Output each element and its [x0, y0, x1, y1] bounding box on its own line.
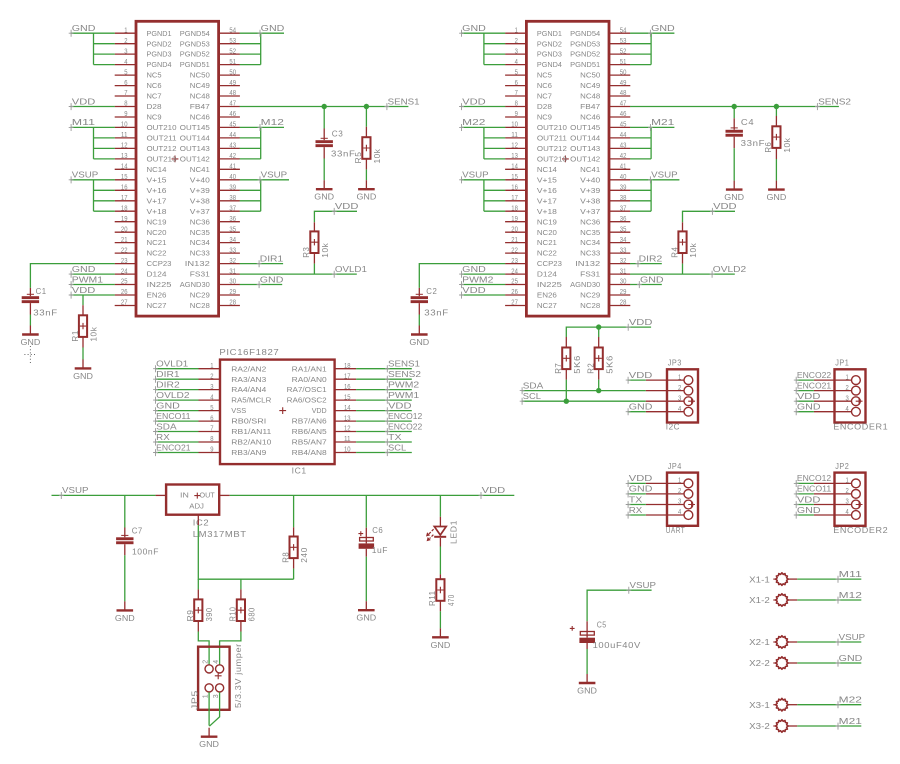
IC4 pin 12 (OUT212)	[505, 147, 526, 149]
svg-text:VSUP: VSUP	[839, 632, 866, 642]
svg-text:37: 37	[229, 205, 236, 212]
IC3 pin 42 (OUT142)	[219, 158, 240, 160]
svg-text:VDD: VDD	[72, 285, 96, 295]
svg-text:I2C: I2C	[666, 422, 680, 432]
svg-text:D124: D124	[537, 270, 557, 279]
IC3 pin 16 (V+16)	[115, 189, 136, 191]
wire R2 to SDA	[598, 380, 600, 391]
svg-text:AGND30: AGND30	[570, 280, 600, 289]
svg-text:PGND51: PGND51	[180, 60, 210, 69]
svg-text:M22: M22	[839, 695, 863, 705]
resistor R8	[293, 527, 295, 536]
ground R6	[775, 181, 777, 190]
svg-text:CCP23: CCP23	[537, 259, 562, 268]
IC4 pin 5 (NC5)	[505, 74, 526, 76]
IC3 pin 54 (PGND54)	[219, 32, 240, 34]
svg-text:27: 27	[511, 300, 518, 307]
IC4 pin 41 (NC41)	[609, 168, 630, 170]
svg-text:NC9: NC9	[537, 113, 552, 122]
svg-text:RB0/SRI: RB0/SRI	[231, 417, 266, 426]
svg-text:NC14: NC14	[537, 165, 557, 174]
regulator IC2 LM317MBT body	[166, 485, 219, 515]
IC3 pin 24 (D124)	[115, 273, 136, 275]
svg-text:OUT144: OUT144	[570, 134, 600, 143]
svg-text:NC6: NC6	[537, 81, 552, 90]
svg-text:VDD: VDD	[713, 201, 737, 211]
svg-text:OVLD2: OVLD2	[156, 390, 190, 400]
wire R9 to JP5 pin2	[198, 632, 209, 665]
svg-text:7: 7	[124, 90, 127, 97]
svg-text:5: 5	[210, 405, 213, 412]
svg-text:V+18: V+18	[537, 207, 557, 216]
wire GND to pin24 (right IC)	[461, 273, 505, 275]
svg-text:NC9: NC9	[147, 113, 162, 122]
svg-text:PGND54: PGND54	[180, 29, 210, 38]
IC3 pin 27 (NC27)	[115, 305, 136, 307]
svg-text:470: 470	[446, 594, 456, 606]
wire VDD rail from IC2 OUT	[230, 494, 515, 496]
svg-text:13: 13	[511, 153, 518, 160]
svg-text:NC5: NC5	[537, 71, 552, 80]
IC4 pin 32 (IN132)	[609, 263, 630, 265]
svg-text:10: 10	[121, 122, 128, 129]
svg-text:10k: 10k	[320, 243, 330, 258]
svg-text:14: 14	[344, 405, 351, 412]
IC3 pin 1 (PGND1)	[115, 32, 136, 34]
ground C1	[29, 326, 31, 335]
IC3 pin 18 (V+18)	[115, 210, 136, 212]
LED LED1	[439, 517, 441, 527]
connector JP4 UART header body	[667, 473, 698, 526]
svg-text:OUT145: OUT145	[570, 123, 600, 132]
IC3 pin 7 (NC7)	[115, 95, 136, 97]
svg-text:D28: D28	[537, 102, 552, 111]
svg-text:GND: GND	[72, 23, 96, 33]
wire VDD to pin8 (right IC)	[461, 106, 505, 108]
svg-text:36: 36	[620, 216, 627, 223]
capacitor C2	[418, 288, 420, 296]
svg-text:33: 33	[229, 247, 236, 254]
svg-text:VSUP: VSUP	[72, 170, 99, 180]
IC3 pin 51 (PGND51)	[219, 64, 240, 66]
svg-text:PGND52: PGND52	[180, 50, 210, 59]
svg-text:100uF40V: 100uF40V	[593, 640, 641, 650]
terminal X2-1	[773, 641, 776, 643]
IC1 pin 11 (RB5/AN7)	[335, 441, 357, 443]
svg-text:47: 47	[620, 101, 627, 108]
svg-text:GND: GND	[357, 192, 377, 202]
IC1 pin 17 (RA0/AN0)	[335, 378, 357, 380]
IC3 pin 48 (NC48)	[219, 95, 240, 97]
ground C6	[365, 601, 367, 610]
wire TX to IC1 pin 11	[356, 441, 412, 443]
svg-text:IN132: IN132	[185, 259, 210, 268]
svg-text:RA0/AN0: RA0/AN0	[292, 375, 327, 384]
svg-text:IN: IN	[180, 491, 189, 500]
wire M21 from X3-2	[797, 725, 861, 727]
IC4 pin 30 (AGND30)	[609, 284, 630, 286]
svg-text:X1-1: X1-1	[749, 574, 770, 584]
IC3 pin 8 (D28)	[115, 106, 136, 108]
svg-text:3: 3	[846, 499, 849, 506]
svg-text:VSUP: VSUP	[462, 170, 489, 180]
svg-text:19: 19	[511, 216, 518, 223]
wire GND to IC1 pin 5	[155, 410, 198, 412]
svg-text:2: 2	[203, 660, 210, 664]
svg-text:35: 35	[620, 226, 627, 233]
svg-text:CCP23: CCP23	[147, 259, 172, 268]
svg-text:NC50: NC50	[190, 71, 210, 80]
IC4 pin 53 (PGND53)	[609, 43, 630, 45]
terminal X2-2	[773, 662, 776, 664]
svg-text:45: 45	[620, 122, 627, 129]
IC4 pin 44 (OUT144)	[609, 137, 630, 139]
wire GND to JP2 encoder2 header pin 4	[796, 514, 814, 516]
svg-text:V+15: V+15	[147, 175, 167, 184]
IC3 pin 46 (NC46)	[219, 116, 240, 118]
IC3 pin 19 (NC19)	[115, 221, 136, 223]
svg-text:GND: GND	[797, 402, 821, 412]
wire OVLD2 from pin31	[630, 273, 735, 275]
capacitor C4	[733, 118, 735, 130]
svg-text:54: 54	[229, 27, 236, 34]
svg-text:DIR1: DIR1	[260, 253, 284, 263]
IC1 pin 16 (RA7/OSC1)	[335, 389, 357, 391]
svg-text:NC35: NC35	[190, 228, 210, 237]
capacitor C1	[29, 288, 31, 296]
svg-text:PGND52: PGND52	[570, 50, 600, 59]
svg-text:NC27: NC27	[537, 301, 557, 310]
svg-text:GND: GND	[314, 192, 334, 202]
svg-text:12: 12	[121, 143, 128, 150]
svg-text:39: 39	[229, 185, 236, 192]
svg-text:43: 43	[229, 143, 236, 150]
svg-text:18: 18	[344, 363, 351, 370]
svg-text:IC2: IC2	[193, 518, 210, 528]
IC3 pin 22 (NC22)	[115, 252, 136, 254]
svg-text:NC7: NC7	[147, 92, 162, 101]
svg-text:22: 22	[121, 247, 128, 254]
svg-text:VDD: VDD	[72, 96, 96, 106]
IC4 pin 18 (V+18)	[505, 210, 526, 212]
svg-text:10: 10	[344, 447, 351, 454]
wire SENS1 to R5	[365, 107, 367, 127]
svg-text:21: 21	[121, 237, 128, 244]
svg-text:GND: GND	[462, 23, 486, 33]
svg-text:JP5: JP5	[190, 690, 200, 710]
svg-text:36: 36	[229, 216, 236, 223]
node junction R7/SCL	[564, 399, 569, 404]
node junction SENS1/C3	[322, 104, 327, 109]
svg-text:ENCO12: ENCO12	[388, 411, 423, 421]
svg-text:UART: UART	[666, 525, 685, 535]
wire R6 to ground	[775, 159, 777, 181]
svg-text:RB5/AN7: RB5/AN7	[292, 438, 327, 447]
wire VDD to pin26 (left IC)	[71, 294, 115, 296]
wire PWM2 to pin25 (right IC)	[461, 284, 505, 286]
capacitor C3	[323, 129, 325, 141]
wire M22 bus pins 10-13 (right IC)	[461, 126, 505, 128]
svg-text:M11: M11	[839, 569, 863, 579]
IC4 pin 24 (D124)	[505, 273, 526, 275]
IC4 pin 36 (NC36)	[609, 221, 630, 223]
svg-text:OUT142: OUT142	[570, 155, 600, 164]
IC3 pin 12 (OUT212)	[115, 147, 136, 149]
resistor R2	[598, 337, 600, 348]
IC4 pin 46 (NC46)	[609, 116, 630, 118]
IC3 pin 29 (NC29)	[219, 294, 240, 296]
svg-text:SDA: SDA	[156, 421, 177, 431]
svg-text:ENCO22: ENCO22	[388, 421, 423, 431]
IC3 pin 23 (CCP23)	[115, 263, 136, 265]
svg-text:NC27: NC27	[147, 301, 167, 310]
svg-text:NC49: NC49	[580, 81, 600, 90]
svg-text:V+17: V+17	[537, 196, 557, 205]
IC4 pin 34 (NC34)	[609, 242, 630, 244]
svg-text:4: 4	[124, 59, 127, 66]
origin marker dotted cross	[24, 346, 36, 364]
svg-text:V+18: V+18	[147, 207, 167, 216]
svg-text:JP4: JP4	[668, 461, 682, 471]
resistor R11	[439, 574, 441, 579]
svg-text:8: 8	[124, 101, 127, 108]
wire VSUP bus pins 15-18 (left IC)	[71, 179, 115, 181]
svg-text:11: 11	[344, 436, 351, 443]
svg-text:43: 43	[620, 143, 627, 150]
svg-text:28: 28	[229, 300, 236, 307]
svg-text:VDD: VDD	[482, 485, 506, 495]
svg-text:VSUP: VSUP	[62, 485, 89, 495]
svg-text:LM317MBT: LM317MBT	[193, 529, 247, 539]
capacitor C7	[124, 528, 126, 538]
IC4 pin 10 (OUT210)	[505, 126, 526, 128]
svg-text:X2-1: X2-1	[749, 637, 770, 647]
IC3 pin 47 (FB47)	[219, 106, 240, 108]
svg-text:GND: GND	[629, 402, 653, 412]
ground C4	[733, 181, 735, 190]
wire GND to JP3 I2C header pin 4	[628, 411, 646, 413]
wire GND to JP1 encoder1 header pin 4	[796, 411, 814, 413]
svg-text:GND: GND	[73, 371, 93, 381]
svg-text:GND: GND	[261, 23, 285, 33]
node junction VDD/R2	[596, 324, 601, 329]
IC3 pin 10 (OUT210)	[115, 126, 136, 128]
svg-text:19: 19	[121, 216, 128, 223]
JP2 encoder2 header pin 1	[814, 482, 851, 484]
svg-text:FS31: FS31	[580, 270, 600, 279]
wire C7 to ground	[124, 555, 126, 601]
IC4 pin 37 (V+37)	[609, 210, 630, 212]
svg-text:ENCO11: ENCO11	[156, 411, 191, 421]
wire VSUP bus pins 15-18 (right IC)	[461, 179, 505, 181]
svg-text:C2: C2	[426, 286, 437, 296]
IC1 pin 1 (RA2/AN2)	[199, 368, 221, 370]
svg-text:17: 17	[121, 195, 128, 202]
svg-text:TX: TX	[388, 432, 402, 442]
svg-text:8: 8	[515, 101, 518, 108]
svg-text:R6: R6	[763, 142, 773, 153]
svg-text:28: 28	[620, 300, 627, 307]
svg-text:V+38: V+38	[580, 196, 600, 205]
JP1 encoder1 header pin 1	[814, 379, 851, 381]
svg-text:V+37: V+37	[580, 207, 600, 216]
wire C2 to ground	[418, 315, 420, 326]
capacitor C5 (polarized)	[586, 621, 588, 637]
svg-text:JP1: JP1	[835, 358, 849, 368]
svg-text:5: 5	[515, 69, 518, 76]
connector JP3 I2C header body	[667, 369, 698, 422]
wire M21 bus pins 45-42 (right IC)	[630, 126, 674, 128]
svg-text:47: 47	[229, 101, 236, 108]
JP3 I2C header pin 4	[646, 411, 684, 413]
wire VDD wire to R1	[82, 295, 84, 305]
wire VDD to R3	[314, 211, 357, 222]
svg-text:C4: C4	[741, 117, 754, 127]
svg-text:4: 4	[210, 394, 213, 401]
svg-text:30: 30	[229, 279, 236, 286]
svg-text:24: 24	[121, 268, 128, 275]
svg-text:17: 17	[511, 195, 518, 202]
wire ENCO11 to IC1 pin 6	[155, 420, 198, 422]
IC4 pin 54 (PGND54)	[609, 32, 630, 34]
svg-text:NC21: NC21	[147, 238, 167, 247]
svg-text:33nF: 33nF	[33, 308, 58, 318]
svg-text:GND: GND	[651, 23, 675, 33]
svg-text:NC28: NC28	[580, 301, 600, 310]
JP1 encoder1 header pin 4	[814, 411, 851, 413]
svg-text:NC7: NC7	[537, 92, 552, 101]
svg-text:X3-2: X3-2	[749, 721, 770, 731]
svg-text:V+17: V+17	[147, 196, 167, 205]
svg-text:10k: 10k	[372, 148, 382, 163]
node junction R2/SDA	[596, 388, 601, 393]
svg-text:26: 26	[511, 289, 518, 296]
ground C7	[124, 601, 126, 610]
svg-text:10k: 10k	[782, 137, 792, 152]
wire OVLD2 to IC1 pin 4	[155, 399, 198, 401]
resistor R3	[313, 222, 315, 231]
svg-text:2: 2	[678, 385, 681, 392]
wire GND from pin30 (left IC)	[240, 284, 283, 286]
svg-text:4: 4	[846, 509, 849, 516]
svg-text:NC33: NC33	[580, 249, 600, 258]
svg-text:R11: R11	[427, 591, 437, 607]
IC1 pin 9 (RB3/AN9)	[199, 452, 221, 454]
svg-text:EN26: EN26	[537, 291, 557, 300]
svg-text:GND: GND	[199, 739, 219, 749]
IC1 pin 13 (RB7/AN6)	[335, 420, 357, 422]
wire M22 from X3-1	[797, 704, 861, 706]
svg-text:49: 49	[229, 80, 236, 87]
svg-text:2: 2	[678, 488, 681, 495]
svg-text:ENCO11: ENCO11	[797, 484, 832, 494]
svg-text:FB47: FB47	[580, 102, 600, 111]
svg-text:VDD: VDD	[462, 285, 486, 295]
svg-text:V+38: V+38	[190, 196, 210, 205]
svg-text:2: 2	[846, 385, 849, 392]
svg-text:VDD: VDD	[629, 473, 653, 483]
IC3 pin 26 (EN26)	[115, 294, 136, 296]
IC4 pin 50 (NC50)	[609, 74, 630, 76]
JP3 I2C header pin 3	[646, 400, 684, 402]
IC4 pin 42 (OUT142)	[609, 158, 630, 160]
svg-text:27: 27	[121, 300, 128, 307]
wire GND bus pins 54-51 (left IC)	[240, 32, 284, 34]
JP3 I2C header pin 2	[646, 390, 684, 392]
svg-text:7: 7	[210, 426, 213, 433]
svg-text:C5: C5	[597, 620, 607, 630]
svg-text:1: 1	[678, 374, 681, 381]
wire DIR1 from pin32	[240, 263, 283, 265]
IC3 pin 43 (OUT143)	[219, 147, 240, 149]
svg-text:51: 51	[620, 59, 627, 66]
wire VDD to JP1 encoder1 header pin 3	[796, 400, 814, 402]
svg-text:VSUP: VSUP	[630, 580, 657, 590]
svg-text:15: 15	[121, 174, 128, 181]
svg-text:NC41: NC41	[580, 165, 600, 174]
svg-text:20: 20	[511, 226, 518, 233]
wire ENCO21 to JP1 encoder1 header pin 2	[796, 390, 814, 392]
svg-text:1: 1	[515, 27, 518, 34]
svg-text:M12: M12	[839, 590, 863, 600]
svg-text:DIR2: DIR2	[639, 253, 663, 263]
IC4 pin 22 (NC22)	[505, 252, 526, 254]
svg-text:FS31: FS31	[190, 270, 210, 279]
svg-text:NC21: NC21	[537, 238, 557, 247]
svg-text:OUT212: OUT212	[537, 144, 567, 153]
svg-text:PGND1: PGND1	[537, 29, 562, 38]
svg-text:NC14: NC14	[147, 165, 167, 174]
svg-text:R9: R9	[185, 610, 195, 622]
svg-text:V+40: V+40	[580, 175, 600, 184]
svg-text:GND: GND	[797, 505, 821, 515]
svg-text:RB1/AN11: RB1/AN11	[231, 427, 271, 436]
wire R5 to ground	[365, 169, 367, 180]
IC3 pin 41 (NC41)	[219, 168, 240, 170]
JP5 pad 2	[205, 665, 213, 673]
svg-text:40: 40	[229, 174, 236, 181]
svg-text:38: 38	[229, 195, 236, 202]
svg-text:49: 49	[620, 80, 627, 87]
svg-text:50: 50	[229, 69, 236, 76]
wire SENS1 to C3	[323, 107, 325, 129]
connector JP5 jumper body	[198, 647, 230, 710]
svg-text:C6: C6	[372, 525, 383, 535]
wire R10 to JP5 pin4	[220, 632, 241, 665]
svg-text:V+40: V+40	[190, 175, 210, 184]
svg-text:OUT143: OUT143	[180, 144, 210, 153]
wire pin23 to C2	[419, 264, 505, 288]
svg-text:30: 30	[620, 279, 627, 286]
svg-text:32: 32	[229, 258, 236, 265]
wire GND from pin30 (right IC)	[630, 284, 662, 286]
connector JP1 encoder1 header body	[835, 369, 866, 422]
svg-text:X2-2: X2-2	[749, 658, 770, 668]
svg-text:R2: R2	[586, 363, 596, 374]
IC2 pin OUT	[219, 494, 230, 496]
wire C3 to ground	[323, 159, 325, 181]
svg-text:PGND54: PGND54	[570, 29, 600, 38]
IC4 pin 7 (NC7)	[505, 95, 526, 97]
JP5 origin cross	[215, 672, 222, 679]
svg-text:15: 15	[511, 174, 518, 181]
JP2 encoder2 header pin 2	[814, 493, 851, 495]
wire VDD rail to R8	[293, 495, 295, 527]
svg-text:6: 6	[515, 80, 518, 87]
svg-text:PGND2: PGND2	[537, 39, 562, 48]
wire VSUP bus pins 40-37 (left IC)	[240, 179, 289, 181]
svg-text:13: 13	[344, 415, 351, 422]
